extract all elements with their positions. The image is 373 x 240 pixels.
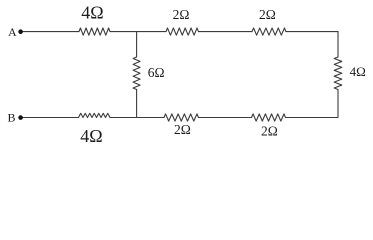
svg-text:2Ω: 2Ω [173,7,190,22]
svg-text:4Ω: 4Ω [81,3,103,23]
wire top R2 to R3 [199,31,253,33]
resistor R6 2ohm bottom-right [252,114,286,121]
svg-text:4Ω: 4Ω [350,64,366,79]
wire bottom right corner to R6 [286,117,339,119]
wire right vertical upper [337,32,339,57]
wire top R1 to R2 [110,31,166,33]
wire bottom R5 to R4 [110,117,164,119]
svg-text:6Ω: 6Ω [148,65,165,80]
wire 6ohm branch lower [136,90,138,118]
svg-text:2Ω: 2Ω [174,122,191,137]
node B terminal dot [18,115,23,120]
resistor R5 2ohm bottom-left [164,114,199,121]
wire right vertical lower [337,90,339,118]
wire top R3 to right corner [286,31,338,33]
wire bottom R6 to R5 [199,117,252,119]
resistor R4 4ohm bottom (hump style) [79,113,111,117]
resistor R2 2ohm top-left [166,28,199,35]
wire bottom-left B to R4 [21,117,79,119]
svg-text:2Ω: 2Ω [259,7,276,22]
resistor R8 4ohm right [334,57,342,90]
svg-text:2Ω: 2Ω [261,123,278,138]
node A terminal dot [18,29,23,34]
resistor R3 2ohm top-right [252,28,286,35]
resistor R7 6ohm middle [133,57,140,90]
resistor R1 4ohm top [79,28,110,35]
svg-text:A: A [8,25,17,39]
svg-text:B: B [8,111,16,125]
svg-text:4Ω: 4Ω [80,126,102,146]
wire top-left A to R1 [21,31,79,33]
wire 6ohm branch upper [136,32,138,57]
